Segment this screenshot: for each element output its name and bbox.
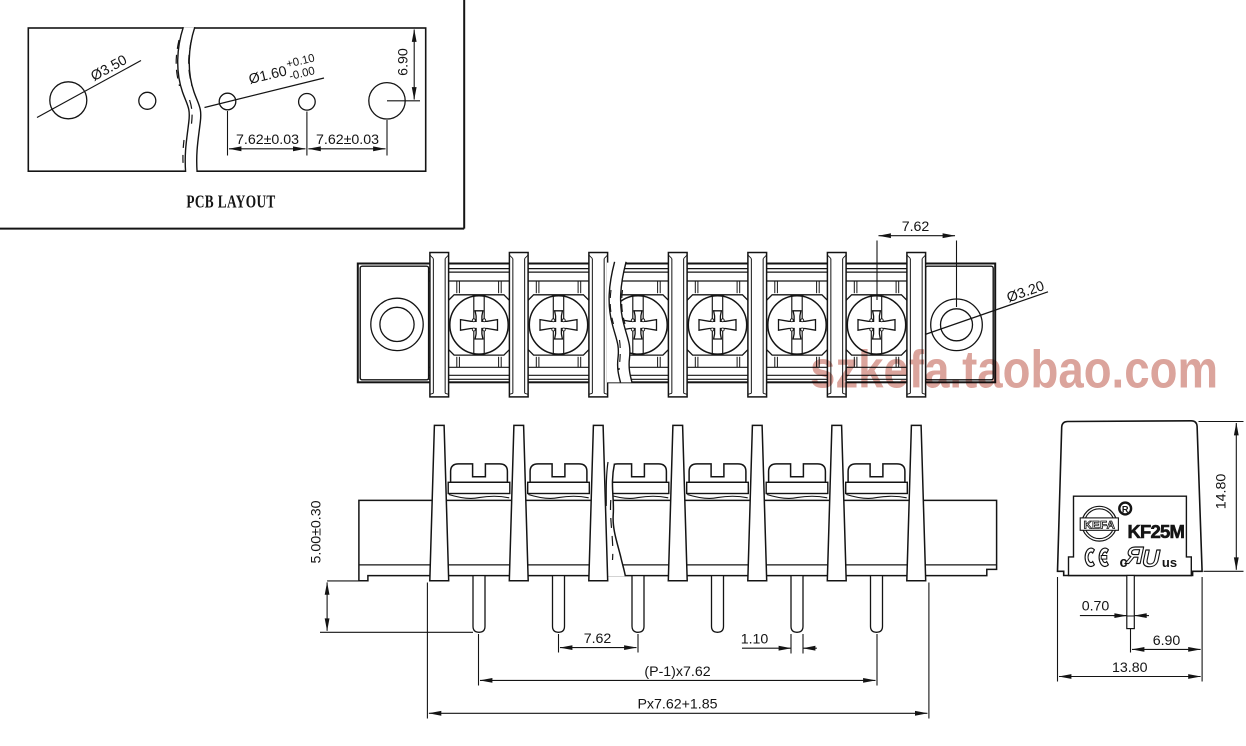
PCB pin hole 2 [299,94,316,111]
front view body [359,500,997,580]
svg-text:(P-1)x7.62: (P-1)x7.62 [644,664,710,680]
svg-text:R: R [1122,505,1129,515]
screw 1 head [450,296,508,354]
screw 5 slot lines [792,296,802,353]
screw 2 slot lines [553,296,563,353]
KEFA logo banner [1080,518,1118,530]
side view pin [1127,576,1135,629]
KEFA logo ring [1082,506,1117,541]
CE mark [1085,548,1108,566]
screw 1 phillips cross [461,311,498,339]
dimension 7.62&#177;0.03 left [228,111,388,156]
screw 6 cross fillets [870,319,883,331]
terminal cell 5 side walls and ticks [765,281,829,367]
screw 1 cross fillets [472,319,485,331]
svg-text:7.62±0.03: 7.62±0.03 [316,132,379,148]
front screw 1 head [451,464,508,482]
screw 6 phillips cross [858,311,895,339]
label 1.60 tolerance [246,52,319,92]
dimension (P-1)x7.62 [479,634,878,686]
screw 2 head [529,296,587,354]
svg-text:KEFA: KEFA [1084,519,1116,531]
svg-text:6.90: 6.90 [396,48,412,76]
dimension 6.90 side [1131,577,1203,682]
dimension 5.00&#177;0.30 [309,500,474,632]
pin 5 front [791,576,803,633]
top view barrier 2 [509,253,528,397]
side view label panel [1069,496,1192,575]
terminal cell 4 side walls and ticks [686,281,750,367]
top view barrier 1 [430,253,449,397]
right mounting hole outer [931,299,983,351]
svg-text:7.62±0.03: 7.62±0.03 [236,132,299,148]
terminal cell 5 pocket [765,295,829,355]
PCB pin hole 1 [219,93,236,110]
svg-text:szkefa.taobao.com: szkefa.taobao.com [810,341,1218,400]
terminal cell 2 pocket [527,295,591,355]
front screw 5 clamp washer [766,482,828,493]
screw 2 cross fillets [552,319,565,331]
svg-text:Px7.62+1.85: Px7.62+1.85 [637,697,717,713]
front barrier 6 [827,425,846,580]
top view barrier 6 [827,253,846,397]
screw 3 head [609,296,667,354]
top view barrier 7 [907,253,926,397]
top view break line left [609,262,620,383]
leader line 3.20 [925,292,1048,335]
top view body inner lines [429,269,926,380]
screw 5 cross fillets [790,319,803,331]
top view barrier 5 [748,253,767,397]
terminal cell 1 pocket [447,295,511,355]
screw 1 slot lines [474,296,484,353]
dimension 0.70 [1080,599,1149,616]
svg-text:13.80: 13.80 [1112,660,1148,676]
svg-text:6.90: 6.90 [1153,633,1181,649]
PCB break dashed lines [176,40,179,86]
front screw 2 clamp wave [528,495,588,499]
front screw 4 head [689,464,746,482]
front break line main [612,464,625,577]
front barrier 7 [907,425,926,580]
terminal cell 6 side walls and ticks [845,281,909,367]
top view body outline [358,264,995,383]
terminal cell 4 pocket [686,295,750,355]
PCB hole 3.50 right [369,83,405,119]
front screw 6 clamp washer [846,482,908,493]
dimension Px7.62+1.85 [427,583,929,719]
front screw 6 clamp wave [846,495,906,499]
front screw 5 head [769,464,826,482]
right mounting hole inner Ø3.20 [941,309,973,341]
terminal cell 2 side walls and ticks [527,281,591,367]
pin 6 front [871,576,883,633]
front barrier 3 [589,425,608,580]
front screw 3 clamp washer [607,482,669,493]
svg-text:0.70: 0.70 [1082,599,1110,615]
left mounting hole outer [371,298,423,350]
top view break dashes [610,290,613,324]
front barrier 1 [430,425,449,580]
screw 4 head [688,296,746,354]
screw 4 cross fillets [711,319,724,331]
terminal cell 1 side walls and ticks [447,281,511,367]
dimension 14.80 [1199,422,1244,572]
svg-text:7.62: 7.62 [584,631,612,647]
pin 4 front [712,576,724,633]
terminal cell 3 side walls and ticks [606,281,670,367]
front screw 3 head [610,464,667,482]
pin 3 front [632,576,644,633]
screw 3 cross fillets [631,319,644,331]
top view barrier 4 [668,253,687,397]
front break line sliver [606,462,608,506]
front screw 6 head [848,464,905,482]
leader line 3.50 [37,61,141,118]
screw 3 slot lines [633,296,643,353]
screw 4 slot lines [712,296,722,353]
top view left end plate [360,266,428,380]
front screw 2 clamp washer [528,482,590,493]
dimension 13.80 [1058,577,1201,682]
screw 2 phillips cross [540,311,577,339]
front screw 1 clamp washer [448,482,510,493]
left mounting hole inner [380,307,414,341]
top view break band [607,262,632,383]
svg-text:14.80: 14.80 [1214,474,1230,510]
dimension 6.90 [387,30,420,101]
screw 3 phillips cross [620,311,657,339]
screw 6 head [847,296,905,354]
watermark szkefa.taobao.com [810,341,1218,400]
front screw 4 clamp washer [687,482,749,493]
leader line 1.60 [205,78,325,108]
top view right end plate [926,266,994,380]
front view body bottom inner line [359,564,997,566]
svg-text:us: us [1162,555,1177,570]
top view break line right [621,262,632,383]
PCB layout strip outline [28,28,425,171]
front view break band [604,459,625,576]
PCB hole small left [139,92,156,109]
front barrier 5 [748,425,767,580]
svg-text:PCB LAYOUT: PCB LAYOUT [186,193,276,212]
side view body [1058,421,1203,576]
front screw 5 clamp wave [767,495,827,499]
front screw 4 clamp wave [687,495,747,499]
PCB break line right [189,27,201,172]
dimension 1.10 pin width [741,632,817,654]
registered mark [1119,503,1131,515]
front break dashes [611,500,613,560]
pin 2 front [553,576,565,633]
drawing sheet border frame [0,0,464,229]
svg-text:1.10: 1.10 [741,632,769,648]
front screw 2 head [530,464,587,482]
svg-text:KF25M: KF25M [1128,521,1185,542]
caption PCB LAYOUT [186,193,276,212]
terminal cell 6 pocket [845,295,909,355]
screw 5 phillips cross [779,311,816,339]
svg-text:c: c [1119,555,1127,571]
dimension 7.62&#177;0.03 right [308,132,385,149]
svg-text:7.62: 7.62 [902,219,930,235]
dimension 7.62 pins [559,631,639,653]
pin 1 front [473,576,485,633]
PCB break line left [178,27,190,172]
dimension 7.62 top [877,219,957,307]
front screw 3 clamp wave [608,495,668,499]
PCB hole 3.50 left [50,82,87,119]
PCB layout break band [178,27,201,172]
screw 6 slot lines [871,296,881,353]
front barrier 2 [509,425,528,580]
front barrier 4 [668,425,687,580]
svg-text:5.00±0.30: 5.00±0.30 [309,500,325,563]
front screw 1 clamp wave [449,495,509,499]
screw 5 head [768,296,826,354]
screw 4 phillips cross [699,311,736,339]
UL recognized mark [1122,543,1163,573]
top view barrier 3 [589,253,608,397]
terminal cell 3 pocket [606,295,670,355]
